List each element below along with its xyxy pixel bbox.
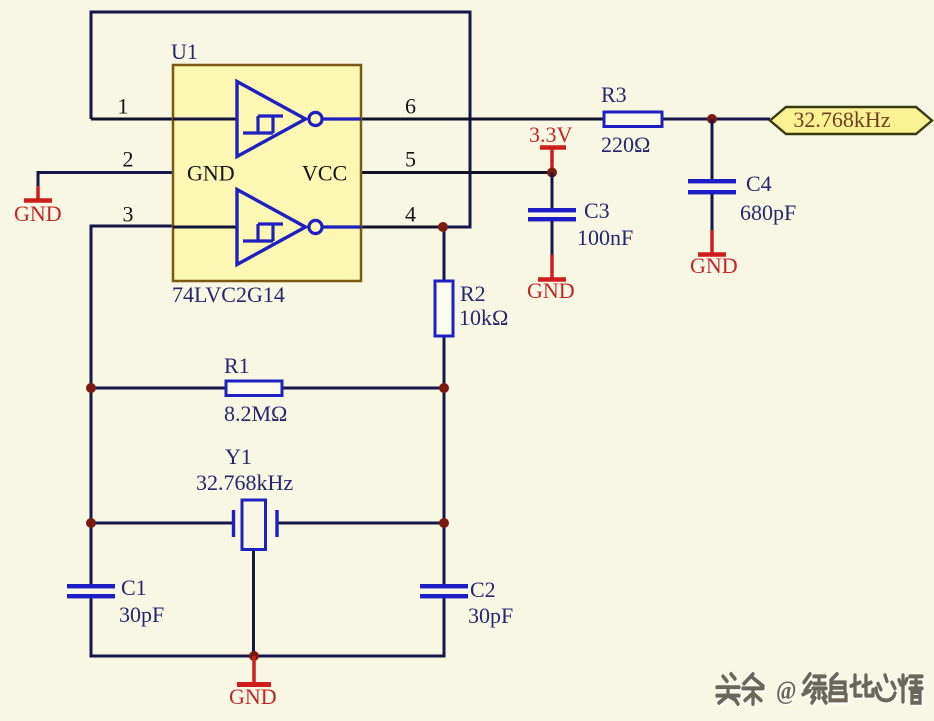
- wire crystal row right: [277, 522, 444, 525]
- label 74LVC2G14: [172, 282, 285, 307]
- svg-text:R3: R3: [601, 82, 627, 107]
- node junction pin4: [438, 222, 448, 232]
- wire R2 to R1 node: [443, 335, 446, 389]
- capacitor C4: [688, 171, 796, 225]
- pin number 2: [123, 147, 134, 172]
- node junction crystal right: [439, 518, 449, 528]
- svg-text:8.2MΩ: 8.2MΩ: [224, 401, 287, 426]
- resistor R1: [224, 353, 287, 426]
- svg-text:GND: GND: [229, 684, 277, 709]
- crystal Y1: [196, 444, 293, 550]
- svg-text:C4: C4: [746, 171, 772, 196]
- svg-text:GND: GND: [690, 253, 738, 278]
- node junction crystal left: [86, 518, 96, 528]
- svg-text:32.768kHz: 32.768kHz: [196, 470, 293, 495]
- capacitor C1: [67, 575, 164, 627]
- ground GND left of U1: [14, 186, 62, 226]
- wire pin4 stub: [361, 226, 443, 229]
- svg-text:32.768kHz: 32.768kHz: [793, 107, 890, 132]
- node junction R1 left: [86, 383, 96, 393]
- wire C2 bottom to bottom rail: [443, 598, 446, 658]
- pin number 5: [405, 147, 416, 172]
- pin number 6: [405, 94, 416, 119]
- ground GND bottom: [229, 656, 277, 709]
- wire crystal row left: [91, 522, 233, 525]
- node junction bottom rail / crystal stem: [249, 651, 259, 661]
- svg-text:4: 4: [405, 202, 416, 227]
- svg-text:VCC: VCC: [302, 161, 347, 186]
- svg-text:C3: C3: [584, 198, 610, 223]
- svg-text:Y1: Y1: [225, 444, 252, 469]
- op-amp U1A schmitt inverter top: [173, 82, 361, 157]
- label U1 designator: [171, 39, 198, 64]
- svg-text:680pF: 680pF: [740, 200, 796, 225]
- wire pin4 node to R2: [443, 227, 446, 282]
- svg-text:U1: U1: [171, 39, 198, 64]
- svg-text:3.3V: 3.3V: [529, 122, 573, 147]
- wire C4 to ground: [711, 194, 714, 232]
- wire C3 to ground: [551, 221, 554, 257]
- svg-text:100nF: 100nF: [577, 225, 633, 250]
- label GND pin name: [187, 161, 235, 186]
- wire bottom rail: [90, 655, 445, 658]
- wire port node to C4: [711, 119, 714, 180]
- svg-text:1: 1: [118, 94, 129, 119]
- wire crystal case stem to bottom rail: [252, 549, 255, 656]
- svg-text:6: 6: [405, 94, 416, 119]
- resistor R2: [435, 281, 508, 336]
- svg-text:GND: GND: [187, 161, 235, 186]
- svg-text:2: 2: [123, 147, 134, 172]
- node junction at R3 output: [707, 114, 717, 124]
- svg-text:GND: GND: [14, 201, 62, 226]
- svg-text:220Ω: 220Ω: [601, 132, 650, 157]
- component U1 body box: [173, 65, 361, 281]
- wire pin6 to R3: [361, 118, 604, 121]
- wire pin1 stub: [91, 118, 173, 121]
- wire R1 row left: [91, 387, 226, 390]
- capacitor C3: [528, 198, 633, 250]
- svg-text:74LVC2G14: 74LVC2G14: [172, 282, 285, 307]
- wire 3.3V node to C3: [551, 173, 554, 210]
- wire pin3 down left column: [91, 226, 173, 584]
- wire right column R1 node to C2: [443, 388, 446, 584]
- svg-text:3: 3: [123, 202, 134, 227]
- svg-text:10kΩ: 10kΩ: [459, 305, 508, 330]
- svg-text:C2: C2: [470, 577, 496, 602]
- ground GND below C4: [690, 230, 738, 278]
- wire R1 row right: [282, 387, 444, 390]
- svg-text:GND: GND: [527, 278, 575, 303]
- pin number 4: [405, 202, 416, 227]
- wire pin2 to GND: [38, 173, 173, 188]
- pin number 1: [118, 94, 129, 119]
- resistor R3: [601, 82, 662, 157]
- pin number 3: [123, 202, 134, 227]
- node junction 3.3V / pin5: [547, 168, 557, 178]
- svg-text:30pF: 30pF: [119, 602, 164, 627]
- wire pin5 to 3.3V node: [361, 171, 552, 174]
- ground GND below C3: [527, 255, 575, 303]
- svg-text:R2: R2: [460, 281, 486, 306]
- wire C1 bottom to bottom rail: [90, 598, 93, 658]
- capacitor C2: [420, 577, 513, 628]
- op-amp U1B schmitt inverter bottom: [173, 190, 361, 265]
- svg-text:30pF: 30pF: [468, 603, 513, 628]
- label VCC pin name: [302, 161, 347, 186]
- power 3.3V rail: [529, 122, 573, 173]
- watermark toutiao: [717, 674, 924, 708]
- wire R3 to output port: [662, 118, 770, 121]
- wire pin1 to pin4 top loop: [91, 12, 470, 227]
- svg-text:C1: C1: [121, 575, 147, 600]
- svg-text:5: 5: [405, 147, 416, 172]
- svg-text:R1: R1: [224, 353, 250, 378]
- port 32.768kHz output: [770, 107, 932, 134]
- node junction R1 right: [439, 383, 449, 393]
- svg-text:@: @: [776, 676, 796, 705]
